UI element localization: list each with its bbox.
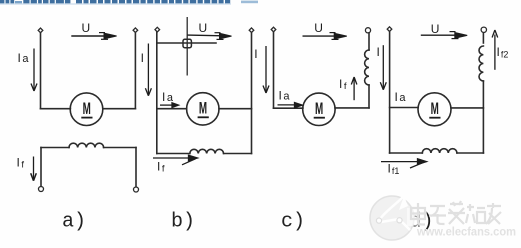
wire: field top-right horizontal	[104, 147, 136, 149]
svg-text:If2: If2	[497, 45, 509, 60]
arrow If down (circuit a)	[31, 157, 37, 181]
wire: left vertical	[273, 32, 275, 108]
inductor Lf (shunt field winding, circuit b)	[190, 149, 224, 153]
wire: stub from left vertical through cursor to right	[157, 42, 216, 44]
terminal T2c (top-right circle)	[365, 28, 370, 33]
watermark logo circle	[370, 196, 414, 240]
arrow U (circuit d)	[421, 32, 467, 39]
svg-text:If1: If1	[388, 162, 400, 177]
underline of M (motor b)	[198, 116, 209, 118]
cropped blue hyperlink text strip at top	[0, 0, 258, 5]
svg-text:c): c)	[281, 211, 305, 234]
svg-text:M: M	[315, 100, 323, 118]
svg-text:I: I	[141, 51, 144, 65]
underline of M (motor c)	[314, 117, 325, 119]
arrow If1 (circuit d)	[381, 159, 427, 168]
wire: bottom-left horizontal of shunt branch	[157, 153, 190, 155]
arrow If (circuit b)	[153, 155, 198, 165]
motor U-a (armature M)	[70, 93, 103, 126]
wire: left horizontal to motor	[390, 107, 418, 109]
arrow Ia (circuit c)	[278, 103, 303, 108]
terminal T1b (top-left diamond)	[155, 27, 160, 32]
wire: right vertical above coil to T2c	[368, 33, 370, 50]
arrow U (circuit a)	[71, 33, 116, 40]
svg-text:Ia: Ia	[18, 51, 30, 65]
terminal T2d (top-right circle)	[481, 27, 486, 32]
svg-text:M: M	[199, 100, 207, 118]
watermark text 电子发烧友 (approximated strokes)	[407, 208, 427, 226]
svg-text:Ia: Ia	[279, 89, 291, 103]
wire: field top-left horizontal	[41, 147, 69, 149]
wire: field left vertical	[40, 148, 42, 187]
wire: right horizontal from motor	[219, 108, 252, 110]
arrow I down (between a and b)	[145, 44, 151, 96]
wire: right vertical above coil to T2d	[482, 33, 484, 43]
svg-text:U: U	[82, 21, 91, 35]
cursor crosshair vertical line	[186, 17, 188, 76]
terminal T4a (field bottom-right circle)	[134, 187, 139, 192]
svg-text:M: M	[83, 100, 91, 118]
svg-text:Ia: Ia	[162, 90, 174, 104]
terminal T2b (top-right diamond)	[249, 28, 254, 33]
svg-text:If: If	[17, 156, 25, 171]
svg-text:If: If	[339, 77, 347, 92]
svg-text:U: U	[431, 22, 440, 36]
underline of M (motor d)	[429, 117, 440, 119]
inductor Lf (series field winding, circuit c)	[365, 50, 369, 85]
svg-text:b): b)	[171, 211, 195, 234]
wire: right vertical to T2a	[134, 33, 136, 109]
svg-text:M: M	[431, 100, 439, 118]
wire: right vertical below coil	[368, 85, 370, 108]
terminal T1a (top-left diamond)	[38, 28, 43, 33]
wire: field right vertical	[135, 148, 137, 187]
terminal T3a (field bottom-left circle)	[39, 187, 44, 192]
motor U-d (armature M)	[418, 93, 451, 126]
wire: left vertical	[156, 32, 158, 153]
underline of M (motor a)	[81, 117, 92, 119]
arrow U (circuit b)	[188, 33, 232, 40]
arrow If2 up (circuit d)	[492, 30, 498, 70]
motor U-c (armature M)	[303, 93, 335, 125]
wire: right vertical below coil	[482, 81, 484, 153]
wire: left vertical	[389, 32, 391, 153]
wire: right horizontal from motor	[451, 107, 483, 109]
svg-text:U: U	[199, 21, 208, 35]
arrow U (circuit c)	[303, 33, 347, 40]
svg-text:a): a)	[62, 211, 86, 234]
svg-text:www.elecfans.com: www.elecfans.com	[416, 225, 516, 239]
svg-text:I: I	[254, 47, 257, 61]
wire: left horizontal to motor	[157, 108, 187, 110]
wire: bottom-left horizontal	[390, 152, 423, 154]
terminal T1d (top-left diamond)	[387, 27, 392, 32]
arrow If up (circuit c)	[351, 77, 357, 100]
arrow I down (between c and d)	[380, 45, 386, 90]
svg-text:If: If	[157, 160, 165, 175]
svg-text:Ia: Ia	[395, 90, 407, 104]
wire: left vertical from T1a	[40, 33, 42, 109]
motor U-b (armature M)	[187, 93, 219, 125]
wire: right vertical	[251, 33, 253, 154]
wire: right horizontal from motor	[335, 107, 369, 109]
inductor Lf1 (series field winding, circuit d)	[422, 149, 457, 153]
arrow I down (between b and c)	[263, 46, 269, 93]
arrow Ia down (circuit a)	[31, 49, 37, 92]
wire: bottom-right horizontal of shunt branch	[224, 153, 252, 155]
wire: bottom-left horizontal to motor	[41, 108, 71, 110]
inductor Lf (field winding, circuit a)	[69, 143, 104, 147]
wire: left horizontal to motor	[274, 107, 303, 109]
terminal T1c (top-left diamond)	[271, 27, 276, 32]
arrow Ia (circuit b)	[160, 103, 179, 108]
svg-text:U: U	[314, 21, 323, 35]
wire: bottom-right horizontal from motor	[103, 108, 136, 110]
inductor Lf2 (shunt field winding, circuit d)	[479, 46, 483, 81]
cursor snap marker square	[183, 39, 191, 47]
terminal T2a (top-right diamond)	[133, 28, 138, 33]
svg-text:I: I	[377, 45, 380, 59]
wire: bottom-right horizontal	[457, 152, 483, 154]
